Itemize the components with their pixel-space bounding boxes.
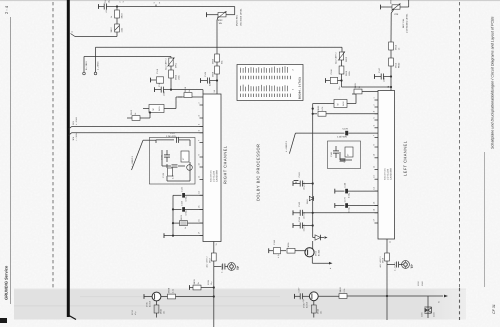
- node a3 tick: [153, 2, 161, 7]
- svg-text:3C09: 3C09: [433, 312, 436, 317]
- svg-text:1/2 IC104: 1/2 IC104: [387, 169, 390, 180]
- wire input rail lower (to right channel trimmer): [84, 56, 171, 58]
- resistor 2R66 cluster: [162, 162, 190, 181]
- resistor 3R43: [154, 301, 165, 318]
- capacitor 3C05 labels: [207, 280, 213, 285]
- left fold dashed line: [52, 2, 54, 288]
- svg-text:3C05: 3C05: [207, 280, 210, 285]
- node rail B tag: [72, 133, 78, 141]
- pin 24 IC104L top: [387, 86, 390, 88]
- svg-text:7: 7: [198, 140, 201, 141]
- svg-text:3R19: 3R19: [184, 86, 187, 92]
- pin 6 IC104L: [373, 125, 379, 128]
- wire C163 output to pin: [313, 212, 378, 214]
- pin 9 IC104R: [198, 154, 204, 157]
- connector BU264 table: [237, 65, 303, 101]
- pin 5 IC104R: [198, 124, 204, 127]
- svg-text:100/10V: 100/10V: [303, 211, 306, 219]
- svg-text:16: 16: [198, 219, 201, 221]
- wire down to band (right): [213, 261, 215, 327]
- resistor 3R14: [389, 50, 401, 68]
- svg-text:3R06: 3R06: [212, 58, 215, 64]
- svg-text:C163: C163: [298, 201, 301, 207]
- capacitor C181 cluster extra: [162, 150, 185, 172]
- wire bottom stub to pin: [164, 233, 203, 238]
- svg-text:3.3n: 3.3n: [172, 175, 175, 179]
- connector pin ticks row 1: [241, 76, 291, 79]
- wire L-VERT diagonal (right): [131, 140, 156, 170]
- svg-text:10: 10: [373, 154, 376, 156]
- capacitor C121: [155, 81, 172, 96]
- svg-text:3T04: 3T04: [315, 250, 318, 256]
- svg-text:8DB-087-081: 8DB-087-081: [384, 168, 387, 180]
- capacitor 3C12 labels: [131, 310, 137, 315]
- pin 11 IC104R bottom: [214, 242, 218, 247]
- svg-text:56k: 56k: [221, 60, 224, 64]
- capacitor C180 cluster left: [330, 146, 353, 158]
- resistor 3R39: [190, 279, 214, 290]
- svg-text:12: 12: [373, 166, 376, 168]
- bottom-left registration tick: [0, 318, 7, 323]
- svg-text:GRUNDIG Service: GRUNDIG Service: [4, 265, 9, 300]
- node junction 284: [213, 286, 215, 288]
- trim pot 3P01: [165, 57, 178, 71]
- wire top supply rail: [117, 6, 235, 8]
- svg-text:2.2k/+30V: 2.2k/+30V: [166, 135, 176, 138]
- svg-text:1: 1: [373, 97, 376, 98]
- svg-text:ADJ VERT 2: ADJ VERT 2: [335, 52, 338, 64]
- svg-text:9: 9: [373, 144, 376, 145]
- svg-text:3C12: 3C12: [131, 310, 134, 315]
- svg-text:6: 6: [373, 125, 376, 126]
- svg-text:2.2k/+30V: 2.2k/+30V: [337, 136, 347, 139]
- svg-text:101: 101: [320, 311, 323, 314]
- svg-text:15: 15: [198, 206, 201, 208]
- svg-text:C→MUTE: C→MUTE: [394, 262, 397, 271]
- test point TP right: [214, 263, 240, 273]
- svg-text:C162: C162: [298, 172, 301, 178]
- resistor 3R23: [173, 215, 203, 229]
- svg-text:C169: C169: [181, 201, 184, 206]
- svg-text:11: 11: [215, 243, 218, 245]
- svg-text:10µ: 10µ: [210, 282, 213, 285]
- svg-text:3R22: 3R22: [317, 105, 320, 111]
- svg-text:C177: C177: [170, 132, 176, 135]
- resistor 3R16: [313, 105, 378, 116]
- resistor cluster left extra: [340, 152, 353, 163]
- svg-text:5: 5: [373, 117, 376, 118]
- pin 5 IC104L: [373, 117, 379, 120]
- node feeder dot 2: [172, 222, 174, 224]
- wire IC104R pin11 down: [213, 246, 215, 253]
- svg-text:7: 7: [373, 135, 376, 136]
- svg-text:Schaltpläne und Druckplattenab: Schaltpläne und Druckplattenabbildungen …: [491, 16, 495, 149]
- pin 16 IC104R: [198, 219, 204, 223]
- svg-text:3R36: 3R36: [287, 243, 290, 248]
- svg-text:C→MUTE: C→MUTE: [221, 264, 224, 273]
- thick page-edge rule: [67, 0, 70, 317]
- svg-text:BC848: BC848: [318, 250, 321, 256]
- group box left channel filter: [328, 141, 361, 169]
- svg-text:1k: 1k: [398, 48, 401, 50]
- node junction left chain: [340, 79, 342, 81]
- svg-text:PB02: PB02: [398, 62, 401, 68]
- right fold dashed line: [459, 2, 461, 288]
- capacitor C101: [99, 0, 118, 13]
- svg-text:100p: 100p: [163, 90, 166, 96]
- svg-text:4.7µ: 4.7µ: [277, 254, 280, 258]
- svg-text:1k: 1k: [197, 282, 200, 284]
- svg-text:1k: 1k: [110, 16, 113, 18]
- svg-text:10µ: 10µ: [108, 0, 111, 3]
- svg-text:C168: C168: [344, 183, 347, 188]
- svg-text:3R14: 3R14: [395, 62, 398, 68]
- left margin rule: [10, 17, 12, 304]
- pin 9 IC104L: [373, 144, 379, 147]
- svg-text:2.2k: 2.2k: [172, 289, 175, 293]
- wire input rail upper (to left channel trimmer): [96, 46, 343, 48]
- svg-text:C180: C180: [330, 152, 333, 157]
- svg-text:3R02: 3R02: [175, 74, 178, 80]
- resistor 3R10: [339, 60, 351, 76]
- svg-text:0.39µ: 0.39µ: [185, 195, 188, 201]
- svg-text:RIGHT CHANNEL: RIGHT CHANNEL: [223, 145, 228, 184]
- svg-text:4: 4: [373, 111, 376, 112]
- pin 12 IC104R: [198, 176, 204, 180]
- test point TP left: [387, 261, 414, 271]
- svg-text:3P02: 3P02: [218, 19, 224, 22]
- pin 17 IC104R: [198, 232, 204, 236]
- svg-text:2 - 4: 2 - 4: [4, 5, 9, 14]
- svg-text:17: 17: [373, 219, 376, 221]
- pin 15 IC104R: [198, 206, 204, 210]
- svg-text:100µ/10V: 100µ/10V: [303, 181, 306, 190]
- capacitor C157: [295, 288, 310, 303]
- pin 11 IC104L bottom: [387, 239, 392, 243]
- diode clamp pair: [421, 307, 436, 317]
- node junction band right: [213, 295, 215, 297]
- svg-text:MUTE REC: MUTE REC: [236, 14, 239, 26]
- svg-text:3P6: 3P6: [72, 137, 75, 141]
- svg-text:CF 31: CF 31: [492, 304, 496, 314]
- svg-text:14: 14: [373, 187, 376, 189]
- svg-text:8DB-088-081: 8DB-088-081: [210, 170, 213, 182]
- wire 3R14 to IC pin24: [390, 66, 392, 91]
- op-amp IC104 left half box: [378, 91, 395, 240]
- pin 10 IC104L: [373, 154, 379, 158]
- resistor 3R12: [389, 42, 401, 50]
- svg-text:3P01: 3P01: [175, 62, 178, 68]
- svg-text:2.2k: 2.2k: [343, 289, 346, 293]
- node rail A tag: [72, 117, 78, 125]
- resistor 3R19 (right path): [178, 86, 192, 97]
- wire junction to left IC pin24: [342, 86, 392, 88]
- capacitor C147: [375, 67, 392, 82]
- svg-text:4.7k: 4.7k: [321, 107, 324, 111]
- svg-text:M: M: [337, 103, 340, 105]
- svg-text:C178: C178: [162, 173, 165, 178]
- svg-text:L→3R04: L→3R04: [96, 61, 99, 70]
- resistor 3R38: [161, 287, 214, 299]
- wire trimmer chain down to junction: [341, 74, 343, 87]
- svg-text:47µ: 47µ: [134, 312, 137, 315]
- wire feeder vertical right channel: [172, 195, 174, 235]
- resistor 3R08a: [212, 62, 220, 77]
- svg-text:L→VERT 2: L→VERT 2: [131, 155, 134, 167]
- svg-text:3R29: 3R29: [354, 83, 357, 89]
- svg-text:3R44: 3R44: [317, 309, 320, 314]
- svg-text:3T06: 3T06: [303, 303, 306, 308]
- connector pin labels row 2: [241, 85, 295, 92]
- node labels 2 3 at junction: [119, 1, 126, 2]
- svg-text:1k: 1k: [184, 227, 187, 229]
- svg-text:2: 2: [198, 102, 201, 103]
- wire diagonal L-VERT (left): [285, 133, 295, 154]
- connector pin ticks row 2: [241, 94, 291, 97]
- wire down to band (left): [386, 261, 388, 320]
- capacitor C158: [269, 240, 281, 258]
- resistor 3R29: [352, 83, 378, 94]
- svg-text:C147: C147: [378, 67, 381, 73]
- svg-text:C158: C158: [273, 240, 276, 245]
- svg-text:24: 24: [213, 90, 216, 92]
- svg-text:9: 9: [198, 154, 201, 155]
- svg-text:C170: C170: [344, 197, 347, 202]
- resistor 3R06: [212, 54, 224, 64]
- svg-text:C179: C179: [343, 128, 349, 131]
- resistor 3R42: [318, 287, 387, 299]
- svg-text:L/CHANNEL LEVEL: L/CHANNEL LEVEL: [405, 13, 408, 33]
- svg-text:DOLBY B/C PROCESSOR: DOLBY B/C PROCESSOR: [256, 144, 261, 201]
- svg-text:3R38: 3R38: [168, 287, 171, 293]
- svg-text:BC848: BC848: [148, 301, 151, 307]
- pin 14 IC104L: [373, 187, 379, 191]
- svg-text:3R08: 3R08: [212, 71, 215, 77]
- capacitor C179: [295, 128, 378, 136]
- svg-text:12: 12: [198, 176, 201, 178]
- svg-text:3R07: 3R07: [110, 27, 113, 33]
- capacitor C176 cluster: [161, 150, 190, 162]
- capacitor C104: [201, 71, 218, 86]
- pin 13 IC104L: [373, 175, 379, 179]
- wire band left to diode clamp: [387, 295, 428, 297]
- capacitor C169: [173, 201, 203, 215]
- transistor cluster circle: [187, 165, 193, 171]
- bottom scan shadow band: [14, 289, 466, 320]
- resistor 3R18: [379, 253, 390, 268]
- svg-text:BU264→3 (TA2): BU264→3 (TA2): [299, 77, 302, 99]
- svg-text:C101: C101: [104, 0, 107, 3]
- potentiometer 3P02: [207, 7, 243, 27]
- svg-text:R→3R01: R→3R01: [85, 60, 88, 70]
- svg-text:OSC BIAS LEVEL: OSC BIAS LEVEL: [239, 8, 242, 26]
- svg-text:3R23: 3R23: [180, 215, 183, 220]
- svg-text:220p: 220p: [209, 80, 212, 86]
- svg-text:3R39: 3R39: [193, 279, 196, 285]
- svg-text:5: 5: [198, 124, 201, 125]
- wire rail corner to 3P03: [341, 47, 343, 52]
- pin 24 IC104R top: [213, 90, 217, 92]
- svg-text:15: 15: [373, 202, 376, 204]
- resistor 3R36: [281, 243, 307, 254]
- wire chain to IC top: [216, 74, 218, 94]
- svg-text:1/2 IC104: 1/2 IC104: [213, 171, 216, 182]
- IC104 right text: [210, 169, 219, 182]
- svg-text:C146: C146: [330, 69, 333, 75]
- svg-text:16: 16: [373, 209, 376, 211]
- capacitor C170: [335, 197, 378, 212]
- svg-text:1k: 1k: [134, 113, 137, 115]
- node input terminal L: [94, 47, 99, 74]
- capacitor C164: [293, 216, 314, 231]
- svg-text:100p: 100p: [383, 76, 386, 82]
- wire left bus vertical: [312, 104, 314, 235]
- wire trimmer chain down: [170, 78, 172, 90]
- svg-text:3R00: 3R00: [421, 281, 424, 286]
- wire bus rail A from page edge: [72, 126, 204, 128]
- svg-text:160k: 160k: [348, 71, 351, 76]
- resistor 3R02: [169, 66, 181, 80]
- svg-text:L→VERT 2: L→VERT 2: [285, 140, 288, 152]
- svg-text:3T05: 3T05: [145, 302, 148, 307]
- inductor module 3L01 (right): [143, 97, 203, 113]
- svg-text:13: 13: [373, 175, 376, 177]
- wire IC104L pin11 down: [386, 243, 388, 253]
- pin 7 IC104R: [198, 140, 204, 143]
- svg-text:10: 10: [198, 163, 201, 165]
- svg-text:3R43: 3R43: [160, 309, 163, 314]
- svg-text:3R17: 3R17: [209, 257, 212, 263]
- svg-text:3: 3: [122, 1, 125, 2]
- wire emitter to tag e: [312, 257, 332, 269]
- svg-text:3R18: 3R18: [382, 257, 385, 263]
- svg-text:LEFT CHANNEL: LEFT CHANNEL: [403, 140, 408, 176]
- wire bus rail B from page edge: [72, 132, 204, 134]
- pin 2 IC104L: [373, 104, 379, 107]
- svg-text:0.33µ: 0.33µ: [348, 206, 351, 212]
- potentiometer 3R09 rec cal: [381, 0, 409, 42]
- capacitor C163: [293, 201, 314, 219]
- svg-text:C183: C183: [343, 159, 346, 163]
- capacitor C120: [173, 187, 203, 201]
- svg-text:17: 17: [198, 232, 201, 234]
- svg-text:2: 2: [373, 104, 376, 105]
- svg-text:1k: 1k: [188, 90, 191, 92]
- svg-text:ADJ VERT 2: ADJ VERT 2: [206, 256, 209, 267]
- svg-text:0.56µ: 0.56µ: [348, 192, 351, 198]
- wire pot 3P02 down: [217, 17, 218, 20]
- wire to right IC top pin: [171, 89, 203, 91]
- svg-text:100/10V: 100/10V: [303, 223, 306, 231]
- svg-text:3D01: 3D01: [306, 199, 309, 204]
- node page tag a: [71, 31, 76, 37]
- svg-text:BC848: BC848: [306, 302, 309, 308]
- transistor 3T05: [145, 292, 161, 307]
- svg-text:101: 101: [163, 311, 166, 314]
- svg-text:L→3R04: L→3R04: [75, 133, 78, 141]
- pin 10 IC104R: [198, 163, 204, 167]
- transistor 3T06: [303, 292, 319, 308]
- svg-text:3D05: 3D05: [421, 312, 424, 317]
- pin 4 IC104R: [198, 115, 204, 118]
- svg-text:6: 6: [198, 130, 201, 131]
- svg-text:ADJ VERT 2: ADJ VERT 2: [379, 256, 382, 267]
- capacitor C162: [293, 172, 314, 190]
- pin 17 IC104L: [373, 219, 379, 223]
- node feeder dot 3: [172, 235, 174, 237]
- diode 3D02: [313, 234, 328, 240]
- diode 3D01 on bus: [306, 196, 314, 204]
- transistor 3T04: [305, 241, 321, 257]
- svg-text:3R12: 3R12: [395, 44, 398, 50]
- node tag b arrow: [428, 295, 448, 303]
- svg-text:C120: C120: [181, 187, 184, 192]
- svg-text:CXA20368: CXA20368: [390, 167, 393, 180]
- pin 2 IC104R: [198, 102, 204, 105]
- pin 15 IC104L: [373, 202, 379, 206]
- svg-text:C104: C104: [204, 71, 207, 77]
- group box right channel filter: [149, 138, 195, 185]
- pin 1 IC104L: [373, 97, 379, 100]
- pin 14 IC104R: [198, 191, 204, 195]
- svg-text:0.39µ: 0.39µ: [185, 209, 188, 215]
- svg-text:14: 14: [198, 191, 201, 193]
- node chain junction: [216, 79, 218, 81]
- svg-text:3L02: 3L02: [342, 101, 345, 106]
- pin 4 IC104L: [373, 111, 379, 114]
- svg-text:4→3R08: 4→3R08: [75, 117, 78, 125]
- trim pot 3P03: [335, 52, 349, 65]
- labels above band left: [417, 281, 424, 286]
- node junction band left: [386, 295, 388, 297]
- connector pin labels row 1: [241, 66, 295, 73]
- capacitor C146L: [326, 69, 342, 90]
- svg-text:3R09: 3R09: [390, 0, 393, 4]
- node terminal into 3T05: [144, 294, 152, 299]
- wire to page tag a: [116, 32, 118, 37]
- svg-text:REC CAL: REC CAL: [402, 18, 405, 28]
- svg-text:24: 24: [387, 86, 390, 88]
- op-amp IC104 right half box: [203, 94, 221, 242]
- svg-text:1k: 1k: [358, 86, 361, 88]
- resistor 3R15: [127, 109, 151, 120]
- pin 6 IC104R: [198, 130, 204, 133]
- node junction C121: [170, 89, 172, 91]
- svg-text:C164: C164: [298, 216, 301, 222]
- svg-text:3P5: 3P5: [72, 121, 75, 125]
- IC104 left text: [384, 167, 393, 180]
- svg-text:C119: C119: [156, 68, 159, 74]
- page top edge shading: [0, 0, 500, 1]
- svg-text:3R42: 3R42: [339, 287, 342, 293]
- svg-text:11: 11: [389, 241, 392, 243]
- capacitor C146 (R ch decouple): [151, 68, 164, 83]
- svg-text:100k: 100k: [121, 28, 124, 33]
- svg-text:ADJ VERT 2: ADJ VERT 2: [165, 58, 168, 70]
- resistor 3R44: [311, 301, 322, 318]
- svg-text:4: 4: [198, 115, 201, 116]
- svg-text:160k: 160k: [178, 75, 181, 80]
- node top-left junction: [116, 5, 118, 7]
- capacitor C168: [335, 183, 378, 198]
- svg-text:3P03: 3P03: [345, 56, 348, 62]
- capacitor C177: [156, 132, 190, 146]
- svg-text:3L01: 3L01: [158, 106, 161, 111]
- resistor 3R07: [110, 18, 123, 33]
- svg-text:3R10: 3R10: [345, 70, 348, 76]
- resistor 3R17: [206, 253, 217, 268]
- node feeder dot 1: [172, 208, 174, 210]
